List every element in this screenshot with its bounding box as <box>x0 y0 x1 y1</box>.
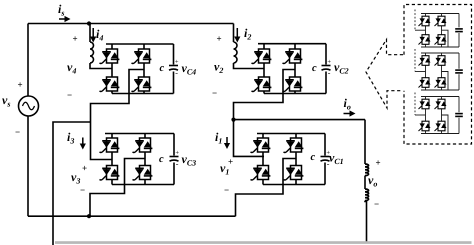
wire bridge1 output to bottom rail <box>236 159 297 217</box>
wire L4 to bridge4 input <box>90 63 112 69</box>
arrow is <box>59 16 71 22</box>
svg-text:c: c <box>311 152 316 163</box>
transistor module2 top-right <box>435 56 447 66</box>
wire bridge2 top rail <box>258 43 326 45</box>
transistor S2b <box>283 49 303 64</box>
svg-text:+: + <box>376 158 381 168</box>
wire bridge2 output to bridge1 input <box>234 70 296 157</box>
wire bridge1 left leg <box>262 134 264 185</box>
wire bridge1 right leg <box>295 134 297 185</box>
transistor S3b <box>133 138 153 153</box>
transistor module2 bottom-right <box>435 78 447 88</box>
wire C4 bottom lead <box>173 72 175 94</box>
svg-text:−: − <box>67 90 72 100</box>
wire bridge3 top rail <box>105 133 174 135</box>
wire bridge1 top rail <box>257 133 325 135</box>
transistor module1 bottom-left <box>419 35 431 45</box>
wire output io <box>234 119 366 121</box>
capacitor C1 <box>321 149 331 168</box>
transistor S4d <box>132 77 152 92</box>
wire bridge2 left leg <box>263 44 265 94</box>
transistor module2 bottom-left <box>419 78 431 88</box>
svg-text:−: − <box>374 199 379 209</box>
dashed bus module1 <box>414 10 416 31</box>
svg-text:−: − <box>15 127 20 137</box>
transistor module3 top-right <box>435 99 447 109</box>
wire C2 bottom lead <box>325 72 327 94</box>
inductor L2 <box>234 42 238 63</box>
wire bridge2 bottom rail <box>264 93 326 95</box>
wire bridge2 right leg <box>294 44 296 94</box>
transistor S4a <box>100 49 120 64</box>
transistor module2 top-left <box>419 56 431 66</box>
svg-text:−: − <box>80 185 85 195</box>
wire module1 right leg <box>441 14 443 48</box>
wire module1 top rail <box>421 13 459 15</box>
svg-text:+: + <box>228 157 233 167</box>
wire module2 cap branch <box>458 53 460 90</box>
svg-text:-: - <box>328 69 331 78</box>
transistor module3 bottom-left <box>419 121 431 131</box>
wire module3 output stub <box>442 115 449 134</box>
wire module2 left leg <box>425 53 427 90</box>
wire between load coils <box>364 176 366 189</box>
svg-text:-: - <box>175 69 178 78</box>
wire module3 top rail <box>421 96 459 98</box>
transistor S4b <box>132 49 152 64</box>
svg-text:+: + <box>175 149 179 156</box>
node junction top rail to L4 <box>87 21 91 25</box>
wire load bottom lead <box>365 201 367 243</box>
dashed zoom arrow <box>366 40 403 109</box>
svg-text:−: − <box>224 185 229 195</box>
wire C4 top lead <box>173 44 175 65</box>
arrow i4 <box>90 28 96 43</box>
wire bridge4 top rail <box>106 43 174 45</box>
voltage source vs <box>19 96 39 116</box>
svg-text:−: − <box>212 88 217 98</box>
transistor module3 top-left <box>419 99 431 109</box>
transistor module1 top-right <box>435 16 447 26</box>
capacitor C3 <box>170 149 180 168</box>
node junction io <box>231 118 235 122</box>
wire bridge4 left leg <box>111 44 113 94</box>
svg-text:c: c <box>312 63 317 74</box>
wire module1 cap branch <box>458 14 460 48</box>
wire bridge4 bottom rail <box>112 93 174 95</box>
wire bridge4 right leg <box>143 44 145 94</box>
arrow i1 <box>224 137 230 149</box>
transistor S3d <box>133 166 153 181</box>
wire module3 left leg <box>425 97 427 134</box>
wire top rail from source to L2 branch <box>28 23 234 25</box>
wire module2 input stub <box>415 71 426 73</box>
wire bridge3 output to bottom rail <box>90 159 145 217</box>
wire bridge1 bottom rail <box>263 184 325 186</box>
transistor S2a <box>252 49 272 64</box>
svg-text:+: + <box>73 34 78 44</box>
wire module2 right leg <box>441 53 443 90</box>
arrow i2 <box>234 28 240 43</box>
transistor S4c <box>100 77 120 92</box>
capacitor module1 <box>455 29 463 32</box>
transistor S1a <box>251 138 271 153</box>
svg-text:+: + <box>82 163 87 173</box>
node junction bottom rail <box>87 214 91 218</box>
wire bridge4 output to bridge3 input <box>91 70 145 160</box>
wire L2 top lead <box>233 24 235 43</box>
svg-text:+: + <box>217 34 222 44</box>
wire C2 top lead <box>325 44 327 65</box>
wire C1 bottom lead <box>324 163 326 185</box>
wire module2 bottom rail <box>421 89 459 91</box>
svg-text:+: + <box>18 80 23 90</box>
wire branch to bottom edge <box>53 122 91 245</box>
transistor module3 bottom-right <box>435 121 447 131</box>
wire module3 input stub <box>415 114 426 116</box>
svg-text:+: + <box>175 58 179 65</box>
wire C3 top lead <box>173 134 175 156</box>
wire C3 bottom lead <box>173 163 175 185</box>
capacitor C4 <box>169 58 179 77</box>
wire left vertical source bottom <box>27 116 29 216</box>
wire left vertical source top <box>27 24 29 97</box>
wire module2 top rail <box>421 52 459 54</box>
svg-text:c: c <box>160 63 165 74</box>
wire L4 top lead <box>89 24 91 43</box>
transistor S3a <box>100 138 120 153</box>
wire bridge3 right leg <box>144 134 146 185</box>
wire bridge3 left leg <box>111 134 113 185</box>
inductor L4 <box>90 42 94 63</box>
wire L2 to bridge2 input <box>234 63 265 69</box>
capacitor module2 <box>455 70 463 73</box>
inductor load upper <box>365 164 369 176</box>
wire module1 bottom rail <box>421 46 459 48</box>
transistor S1d <box>284 166 304 181</box>
capacitor module3 <box>455 114 463 117</box>
arrow i3 <box>80 138 86 150</box>
wire module1 left leg <box>425 14 427 48</box>
inductor load lower <box>365 189 369 201</box>
capacitor C2 <box>322 58 332 77</box>
transistor S1b <box>284 138 304 153</box>
arrow io <box>344 110 356 116</box>
wire load top lead <box>364 120 366 164</box>
transistor S3c <box>100 166 120 181</box>
wire module3 right leg <box>441 97 443 134</box>
svg-text:-: - <box>176 160 179 169</box>
svg-text:+: + <box>327 58 331 65</box>
wire C1 top lead <box>324 134 326 156</box>
svg-text:c: c <box>159 154 164 165</box>
wire module1 input stub <box>415 29 426 31</box>
wire bridge3 bottom rail <box>112 184 174 186</box>
wire module1 output stub <box>442 30 449 47</box>
transistor module1 top-left <box>419 16 431 26</box>
transistor S1c <box>251 166 271 181</box>
wire module3 cap branch <box>458 97 460 134</box>
transistor S2c <box>252 77 272 92</box>
wire module3 bottom rail <box>421 133 459 135</box>
dashed enclosure of phase leg <box>404 5 472 145</box>
dashed bus module3 <box>414 93 416 116</box>
transistor module1 bottom-right <box>435 35 447 45</box>
wire module2 output stub <box>442 72 449 91</box>
wire bottom return rail <box>28 215 236 217</box>
wire bottom gray edge <box>55 241 472 244</box>
dashed bus module2 <box>414 49 416 72</box>
transistor S2d <box>283 77 303 92</box>
